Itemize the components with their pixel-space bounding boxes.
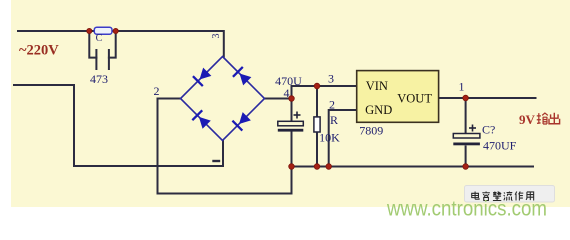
svg-text:470UF: 470UF — [483, 139, 517, 153]
svg-text:C?: C? — [482, 123, 495, 137]
svg-text:GND: GND — [365, 103, 392, 117]
svg-text:VIN: VIN — [366, 79, 388, 93]
svg-text:3: 3 — [211, 34, 222, 39]
svg-text:VOUT: VOUT — [397, 92, 432, 106]
svg-text:C: C — [96, 33, 103, 44]
svg-text:R: R — [330, 113, 338, 127]
svg-text:4: 4 — [284, 86, 290, 100]
svg-text:9V: 9V — [519, 112, 536, 127]
svg-text:1: 1 — [459, 80, 465, 94]
svg-text:473: 473 — [90, 72, 108, 86]
svg-text:7809: 7809 — [359, 124, 383, 138]
svg-text:10K: 10K — [319, 131, 340, 145]
svg-text:2: 2 — [154, 84, 160, 98]
svg-text:3: 3 — [328, 72, 334, 86]
svg-text:www.cntronics.com: www.cntronics.com — [386, 197, 547, 221]
svg-text:2: 2 — [329, 98, 335, 112]
svg-text:~220V: ~220V — [19, 43, 59, 59]
